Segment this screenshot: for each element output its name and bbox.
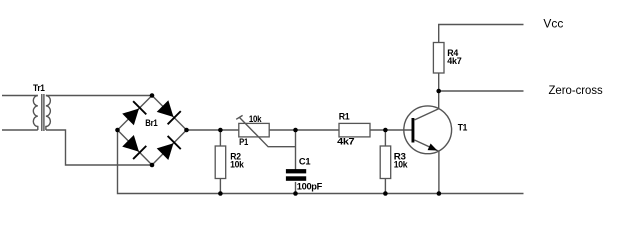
svg-text:10k: 10k (394, 160, 409, 170)
svg-text:R1: R1 (339, 111, 350, 121)
svg-text:Br1: Br1 (145, 118, 157, 128)
svg-text:10k: 10k (249, 114, 263, 124)
svg-text:Tr1: Tr1 (33, 83, 45, 93)
svg-text:4k7: 4k7 (337, 137, 355, 147)
svg-text:P1: P1 (239, 137, 248, 147)
svg-text:4k7: 4k7 (447, 56, 461, 66)
svg-text:T1: T1 (458, 123, 468, 133)
svg-text:C1: C1 (299, 157, 311, 167)
svg-text:10k: 10k (230, 159, 245, 169)
svg-text:Zero-cross: Zero-cross (549, 83, 603, 97)
svg-text:100pF: 100pF (297, 182, 323, 192)
svg-text:Vcc: Vcc (543, 17, 563, 31)
